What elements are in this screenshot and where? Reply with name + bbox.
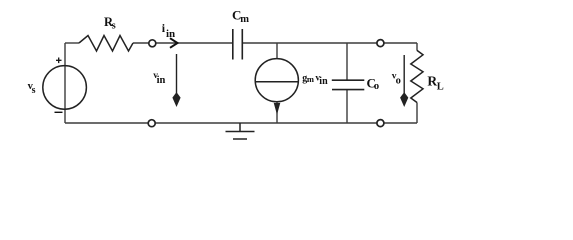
wire top-left horizontal (vs top to resistor) [65,42,79,44]
output terminal bottom (open circle) [377,120,384,127]
wire right vertical above RL [416,43,418,51]
wire bottom horizontal [65,122,417,124]
wire right vertical below RL [416,103,418,124]
node bottom-left terminal (open circle) [148,120,155,127]
arrow v_in (downward voltage arrow) [173,54,180,105]
svg-text:Rs: Rs [104,15,116,32]
wire Cm right plate to top-right corner [243,42,418,44]
minus sign of Vs [55,111,63,113]
wire Co top branch [346,43,348,80]
wire current-source top stub [276,43,278,59]
svg-text:vs: vs [28,81,36,96]
svg-text:Cm: Cm [232,8,249,25]
svg-text:RL: RL [427,74,443,93]
voltage source Vs [43,66,87,110]
wire Co bottom branch [346,90,348,123]
wire resistor to Cm left plate [133,42,233,44]
dependent current source gm*vin [255,59,298,102]
svg-text:iin: iin [162,21,175,40]
svg-text:vin: vin [153,71,165,86]
ground [226,123,255,139]
svg-text:Co: Co [367,75,380,92]
capacitor Co [332,80,365,89]
node input terminal (open circle, top) [149,40,156,47]
wire current-source bottom stub [276,102,278,123]
output terminal top (open circle) [377,40,384,47]
resistor RL (vertical) [411,50,423,102]
capacitor Cm [233,29,243,60]
resistor Rs [79,36,133,52]
arrow i_in (chevron on wire) [170,38,178,48]
wire left vertical through source [64,43,66,123]
arrow v_o (downward voltage arrow) [401,55,408,105]
plus sign of Vs [56,58,62,64]
current source arrowhead (down) [274,104,279,113]
svg-text:vo: vo [392,72,401,87]
svg-text:gmvin: gmvin [302,73,328,87]
